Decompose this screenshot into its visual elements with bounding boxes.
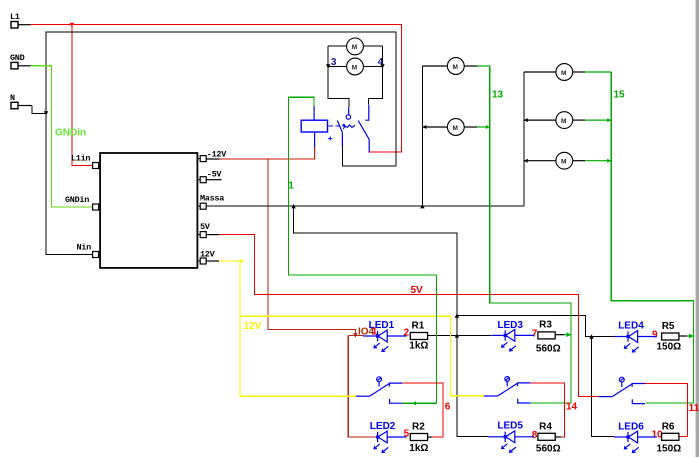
resistor R2 [410, 434, 427, 441]
svg-text:Massa: Massa [200, 193, 224, 203]
left throw leg with circle [348, 107, 350, 115]
svg-text:LED3: LED3 [497, 320, 523, 331]
wire column black 13 [421, 66, 423, 206]
svg-text:9: 9 [652, 329, 658, 340]
switch S3 [599, 396, 613, 398]
svg-text:R6: R6 [662, 421, 675, 432]
junction Massa branch [291, 204, 295, 208]
motor box frame [328, 46, 382, 107]
switch S2 [484, 395, 498, 397]
svg-text:M: M [561, 159, 566, 166]
black stub 5V pin [206, 234, 219, 236]
svg-text:LED5: LED5 [497, 421, 523, 432]
R4 right stub [555, 436, 561, 438]
wire column black 15 [523, 72, 525, 206]
junction LED1 row [353, 333, 357, 337]
svg-text:15: 15 [614, 90, 626, 101]
svg-text:8: 8 [532, 430, 538, 441]
junction 12V [240, 259, 244, 263]
wire net GND (light green) [31, 66, 93, 207]
svg-text:2: 2 [404, 328, 410, 339]
pin -12V [197, 158, 200, 160]
svg-text:14: 14 [566, 401, 578, 412]
terminal N [10, 93, 32, 109]
motor M1 (top) [347, 38, 364, 55]
svg-text:R4: R4 [539, 421, 552, 432]
svg-text:12V: 12V [200, 250, 216, 260]
svg-text:GNDin: GNDin [65, 195, 89, 205]
LED4 [614, 336, 627, 338]
svg-text:N: N [10, 93, 15, 103]
junction N [44, 111, 48, 115]
svg-text:LED2: LED2 [370, 421, 396, 432]
svg-text:R3: R3 [539, 320, 552, 331]
svg-text:1kΩ: 1kΩ [409, 340, 428, 351]
power supply block [65, 149, 227, 268]
resistor R1 [410, 333, 427, 340]
svg-text:M: M [453, 125, 458, 132]
moving arm [337, 121, 342, 133]
R2 right stub [428, 436, 432, 438]
black stub 12V pin [206, 260, 219, 262]
black stub -12V pin [206, 158, 220, 160]
resistor R4 [538, 433, 555, 440]
wire net 1 (green): relay coil to switch1 [289, 97, 437, 403]
svg-text:5: 5 [404, 429, 410, 440]
wire column green 15 [611, 72, 693, 403]
svg-text:L1: L1 [10, 12, 20, 22]
junction M6 left [524, 118, 528, 122]
svg-text:Nin: Nin [77, 243, 92, 253]
pin 5V [197, 234, 200, 236]
svg-text:M: M [352, 64, 357, 71]
coil top lead (blue) [313, 106, 315, 120]
motor M3 [422, 58, 489, 75]
svg-text:1kΩ: 1kΩ [409, 443, 428, 454]
plus mark [328, 137, 332, 141]
window edge gray strip [696, 0, 699, 457]
svg-text:L1in: L1in [71, 154, 90, 164]
junction motor box right [380, 64, 384, 68]
svg-text:560Ω: 560Ω [536, 344, 561, 355]
resistor R3 [538, 332, 555, 339]
resistor R5 [662, 333, 679, 340]
svg-text:-5V: -5V [207, 169, 223, 179]
wire net 12V (yellow) [219, 261, 484, 396]
svg-text:7: 7 [532, 329, 538, 340]
junction Massa vertical top branch [455, 313, 459, 317]
LED6 [614, 436, 627, 438]
pin L1in [93, 165, 99, 167]
svg-text:LED6: LED6 [618, 421, 644, 432]
wire net N (black): line y=31.8 to relay common, down to Nin [32, 32, 396, 255]
svg-text:R5: R5 [662, 321, 675, 332]
junction LED4 row branch down [589, 334, 593, 338]
pin 12V [197, 260, 200, 262]
wire net 14 (red): switch S2 to R4 [530, 383, 564, 437]
svg-text:12V: 12V [244, 321, 262, 332]
svg-text:M: M [352, 44, 357, 51]
svg-text:M: M [561, 118, 566, 125]
junction tick net1/switch1 [414, 402, 416, 406]
svg-text:-12V: -12V [207, 149, 227, 159]
svg-text:5V: 5V [200, 222, 211, 232]
relay changeover contact [337, 105, 369, 153]
pin Massa [197, 205, 200, 207]
svg-text:R2: R2 [412, 421, 425, 432]
pin -5V (stub) [197, 179, 200, 181]
wire net 6 (red): switch S1 to R2 [402, 383, 443, 437]
terminal GND [10, 53, 31, 69]
svg-text:M: M [453, 64, 458, 71]
junction M7 right [607, 159, 611, 163]
junction Massa/motor column 13 [420, 204, 424, 208]
LED1 [363, 335, 376, 337]
pin GNDin [93, 206, 99, 208]
svg-text:GND: GND [10, 53, 25, 63]
svg-text:13: 13 [492, 90, 504, 101]
svg-text:6: 6 [445, 401, 451, 412]
svg-text:1: 1 [288, 181, 294, 192]
switch S1 [356, 395, 370, 397]
svg-text:150Ω: 150Ω [657, 443, 682, 454]
wire column green 13 [490, 66, 571, 403]
right throw [365, 105, 369, 121]
motor M5 [524, 64, 611, 81]
R5 right lead to net 15 [679, 335, 687, 337]
junction R3/net13 [566, 332, 571, 337]
pin Nin [93, 254, 99, 256]
wire net -12V (dark red): branch down to LED1/LED2 rows [268, 159, 376, 437]
R3 right lead to net 13 [555, 334, 564, 336]
junction M4 left [422, 125, 426, 129]
svg-text:150Ω: 150Ω [657, 341, 682, 352]
svg-text:560Ω: 560Ω [536, 443, 561, 454]
common pole lead [341, 132, 343, 147]
LED2 [375, 436, 378, 438]
junction M6 right [607, 118, 611, 122]
svg-text:5V: 5V [411, 285, 424, 296]
junction Massa vertical / LED3 row [455, 333, 459, 337]
svg-text:GNDin: GNDin [55, 128, 86, 139]
svg-text:11: 11 [689, 403, 699, 414]
LED5 [488, 436, 504, 438]
junction M7 left [524, 159, 528, 163]
junction L1/L1in [70, 23, 75, 27]
motor M4 [422, 119, 489, 136]
wire net Massa (black distribution) [206, 206, 614, 436]
motor M2 (bottom) [347, 58, 364, 75]
spring squiggle [343, 125, 355, 129]
svg-text:M: M [561, 70, 566, 77]
wire net 11 (red): switch S3 to R6 [645, 383, 688, 436]
junction R5/net15 [689, 334, 694, 339]
resistor R6 [662, 433, 679, 440]
dashed link [329, 125, 340, 127]
junction motor box left [326, 64, 330, 68]
svg-text:3: 3 [331, 57, 337, 68]
junction M4 right [486, 125, 490, 129]
relay coil [301, 106, 339, 159]
svg-text:LED4: LED4 [618, 321, 644, 332]
motor M7 [524, 152, 611, 169]
svg-text:R1: R1 [412, 320, 425, 331]
terminal L1 [10, 12, 31, 28]
coil bottom lead (blue then dark red) [314, 132, 316, 147]
wire net L1 (red): top line, branch to L1in, drop to relay throw [31, 25, 402, 166]
motor M6 [524, 112, 611, 129]
wire net -12V horizontal: pin to relay coil [220, 158, 315, 160]
wire net 5V (red) [219, 235, 599, 397]
LED3 [491, 334, 503, 336]
